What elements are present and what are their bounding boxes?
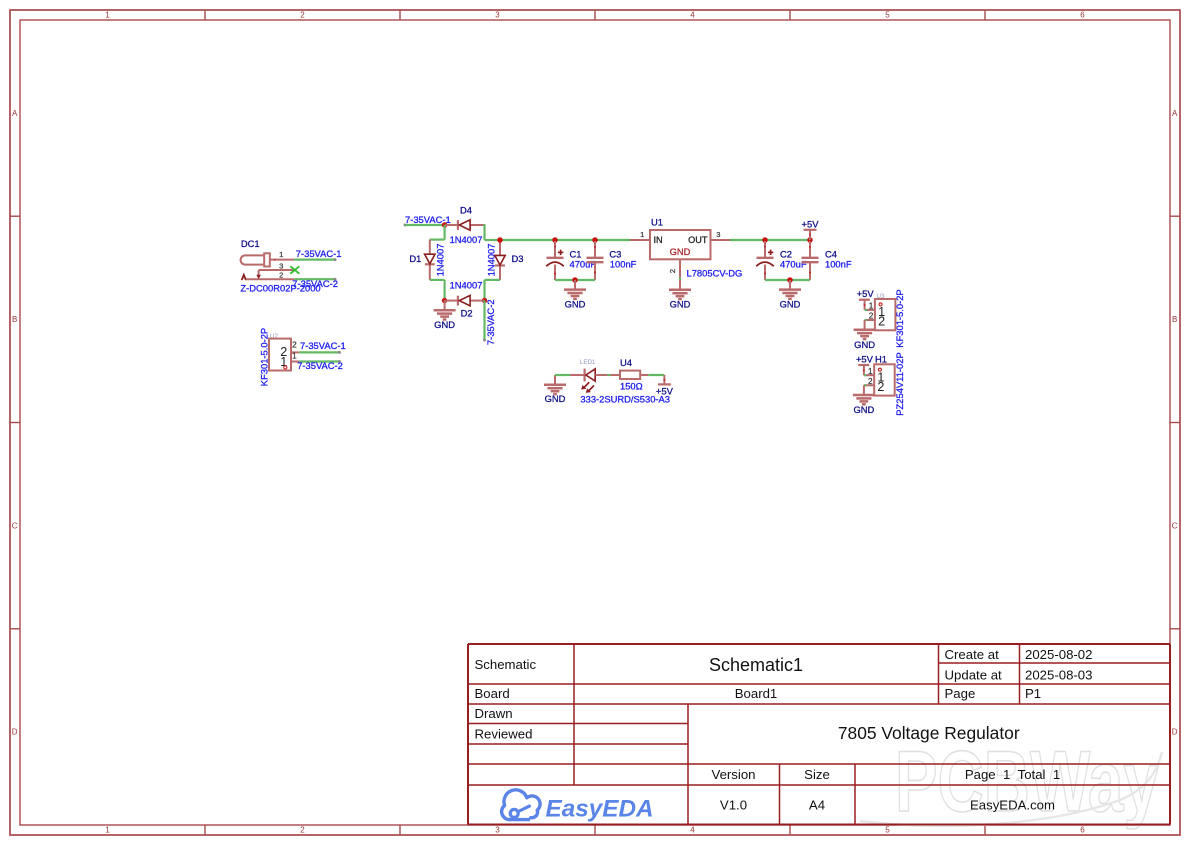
svg-text:Size: Size <box>804 767 830 782</box>
value PZ254V11-02P vertical at H1 <box>894 352 905 415</box>
svg-text:Page: Page <box>945 686 976 701</box>
svg-text:2025-08-02: 2025-08-02 <box>1025 647 1092 662</box>
svg-text:100nF: 100nF <box>610 259 637 270</box>
label C3 <box>609 248 621 259</box>
diode D1 <box>425 240 435 280</box>
svg-text:A: A <box>1172 109 1178 118</box>
svg-text:Create at: Create at <box>945 647 1000 662</box>
svg-text:C: C <box>1172 521 1178 530</box>
svg-text:KF301-5.0-2P: KF301-5.0-2P <box>894 289 905 347</box>
svg-text:D: D <box>1172 728 1178 737</box>
diode D3 <box>495 241 505 280</box>
svg-text:L7805CV-DG: L7805CV-DG <box>687 268 743 279</box>
junction bridge output <box>497 237 503 243</box>
svg-text:2: 2 <box>292 340 297 349</box>
svg-text:GND: GND <box>670 246 691 257</box>
value KF301-5.0-2P vertical at U3 <box>894 289 905 347</box>
EasyEDA logo <box>502 790 654 823</box>
wire net 7-35VAC-2 down from bridge <box>483 301 486 342</box>
pin numbers 2,1 of U2 <box>292 340 297 360</box>
value 100nF of C4 <box>825 259 852 270</box>
net label 7-35VAC-1 at U2 <box>300 340 346 351</box>
label D4 <box>460 205 472 216</box>
svg-text:1: 1 <box>105 11 110 20</box>
svg-text:7-35VAC-2: 7-35VAC-2 <box>485 299 496 345</box>
value 333-2SURD/S530-A3 <box>580 394 670 405</box>
op-amp U1 L7805 regulator <box>630 217 730 291</box>
diode D2 <box>445 295 485 305</box>
svg-text:5: 5 <box>885 11 890 20</box>
svg-text:1N4007: 1N4007 <box>485 244 496 277</box>
ground under C2 C4 <box>779 280 801 309</box>
connector DC1 <box>241 238 295 280</box>
svg-text:GND: GND <box>854 339 875 350</box>
net label 7-35VAC-2 at U2 <box>297 360 343 371</box>
connector U2 KF301-5.0-2P <box>258 328 299 386</box>
wire net 7-35VAC-1 into bridge <box>404 224 445 227</box>
value label Z-DC00R02P-2000 <box>240 283 320 294</box>
svg-text:1N4007: 1N4007 <box>434 244 445 277</box>
capacitor C1 <box>546 241 564 280</box>
value L7805CV-DG <box>687 268 743 279</box>
wire bridge top-right corner <box>485 224 501 240</box>
svg-text:2: 2 <box>300 826 305 835</box>
svg-text:1N4007: 1N4007 <box>450 234 483 245</box>
svg-text:GND: GND <box>545 393 566 404</box>
ground under bridge <box>434 301 456 330</box>
wire net 7-35VAC-2 from DC1 pin 2 <box>294 278 336 281</box>
svg-text:C: C <box>12 521 18 530</box>
svg-text:2: 2 <box>877 380 884 394</box>
label C2 <box>780 248 792 259</box>
svg-text:7-35VAC-1: 7-35VAC-1 <box>300 340 346 351</box>
wire U1 out to +5V <box>730 239 810 241</box>
net label 7-35VAC-1 at bridge <box>405 214 451 225</box>
diode D4 <box>445 220 485 230</box>
svg-text:3: 3 <box>716 230 720 239</box>
pin numbers 1,2 of H1 <box>868 367 873 386</box>
svg-text:Board: Board <box>475 686 510 701</box>
svg-text:4: 4 <box>690 11 695 20</box>
svg-text:+5V: +5V <box>857 288 875 299</box>
pin numbers 1,3,2 of U1 <box>640 230 720 273</box>
value 1N4007 of D1 (vertical) <box>434 244 445 277</box>
junction bridge bottom-right <box>482 298 488 304</box>
svg-text:+5V: +5V <box>802 218 820 229</box>
svg-text:GND: GND <box>434 319 455 330</box>
svg-text:1: 1 <box>105 826 110 835</box>
svg-text:4: 4 <box>690 826 695 835</box>
wire net 7-35VAC-1 from U2 pin 2 <box>299 351 341 354</box>
svg-text:H1: H1 <box>875 353 887 364</box>
svg-text:D4: D4 <box>460 205 472 216</box>
svg-text:5: 5 <box>885 826 890 835</box>
svg-text:7-35VAC-1: 7-35VAC-1 <box>296 248 342 259</box>
svg-text:OUT: OUT <box>688 235 708 245</box>
junction bridge top <box>442 222 448 228</box>
svg-text:Schematic: Schematic <box>475 657 537 672</box>
connector U3 KF301-5.0-2P <box>857 288 896 330</box>
junction input gnd <box>572 277 578 283</box>
svg-text:GND: GND <box>780 298 801 309</box>
svg-text:Reviewed: Reviewed <box>475 727 533 742</box>
svg-text:A: A <box>12 109 18 118</box>
wire C2-C4 bottom bus <box>765 279 810 281</box>
wire U4 to +5V <box>648 374 664 376</box>
svg-text:GND: GND <box>670 299 691 310</box>
label LED1 <box>580 359 596 366</box>
junction +5V node <box>807 237 813 243</box>
junction C1 top <box>552 237 558 243</box>
value 470uF of C2 <box>780 259 807 270</box>
svg-text:2: 2 <box>868 377 873 386</box>
svg-text:3: 3 <box>279 262 283 271</box>
led LED1 <box>570 369 620 393</box>
value 100nF of C3 <box>610 259 637 270</box>
label C1 <box>570 248 582 259</box>
wire C1-C3 bottom bus <box>555 279 595 281</box>
junction C2 top <box>762 237 768 243</box>
svg-text:D1: D1 <box>409 253 421 264</box>
net label 7-35VAC-2 vertical <box>485 299 496 345</box>
wire bridge top-left corner <box>430 225 445 240</box>
svg-text:P1: P1 <box>1025 686 1041 701</box>
wire gnd to LED <box>555 374 570 376</box>
wire net 7-35VAC-2 from U2 pin 1 <box>299 360 341 363</box>
svg-text:B: B <box>1172 315 1177 324</box>
svg-text:Update at: Update at <box>945 668 1003 683</box>
label D3 <box>512 253 524 264</box>
svg-text:1: 1 <box>868 367 873 376</box>
svg-text:A4: A4 <box>809 798 825 813</box>
svg-text:7-35VAC-2: 7-35VAC-2 <box>297 360 343 371</box>
svg-text:Z-DC00R02P-2000: Z-DC00R02P-2000 <box>240 283 320 294</box>
svg-text:470uF: 470uF <box>780 259 807 270</box>
svg-text:EasyEDA: EasyEDA <box>546 796 654 823</box>
svg-text:1: 1 <box>640 230 644 239</box>
resistor U4 <box>620 371 648 379</box>
power +5V at LED branch (down) <box>656 375 674 396</box>
svg-text:150Ω: 150Ω <box>620 380 643 391</box>
label D2 <box>461 307 473 318</box>
svg-text:100nF: 100nF <box>825 259 852 270</box>
svg-text:2025-08-03: 2025-08-03 <box>1025 668 1092 683</box>
svg-text:Board1: Board1 <box>735 686 778 701</box>
svg-text:D: D <box>12 728 18 737</box>
ground at LED branch <box>544 375 566 404</box>
svg-text:+5V: +5V <box>856 353 874 364</box>
svg-text:GND: GND <box>565 298 586 309</box>
value 1N4007 of D4 <box>450 234 483 245</box>
capacitor C4 <box>802 241 819 280</box>
capacitor C3 <box>587 241 604 280</box>
svg-text:IN: IN <box>654 235 663 245</box>
svg-text:LED1: LED1 <box>580 359 596 366</box>
svg-text:2: 2 <box>668 269 677 273</box>
svg-text:U4: U4 <box>620 357 632 368</box>
power +5V at output <box>802 218 820 240</box>
svg-text:1N4007: 1N4007 <box>450 280 483 291</box>
label U4 <box>620 357 632 368</box>
svg-text:7805 Voltage Regulator: 7805 Voltage Regulator <box>838 723 1020 743</box>
ground under C1 C3 <box>564 280 586 309</box>
wire bridge bottom-right corner <box>485 280 501 301</box>
svg-text:Drawn: Drawn <box>475 706 513 721</box>
pin numbers 1,3,2 of DC1 <box>279 250 283 280</box>
svg-text:2: 2 <box>300 11 305 20</box>
svg-text:DC1: DC1 <box>241 238 260 249</box>
value 1N4007 of D2 <box>450 280 483 291</box>
svg-text:PZ254V11-02P: PZ254V11-02P <box>894 352 905 415</box>
value 150 ohm <box>620 380 643 391</box>
pin numbers 1,2 of U3 <box>869 302 874 321</box>
junction output gnd <box>787 277 793 283</box>
ground under U1 <box>669 280 691 309</box>
junction C3 top <box>592 237 598 243</box>
svg-text:EasyEDA.com: EasyEDA.com <box>970 798 1055 813</box>
watermark <box>860 734 1162 830</box>
svg-text:470uF: 470uF <box>570 259 597 270</box>
svg-text:333-2SURD/S530-A3: 333-2SURD/S530-A3 <box>580 394 670 405</box>
svg-text:D3: D3 <box>512 253 524 264</box>
junction bridge bottom-left <box>442 298 448 304</box>
svg-text:1: 1 <box>279 250 283 259</box>
svg-text:Version: Version <box>712 767 756 782</box>
wire main bus bridge to U1 <box>500 239 630 241</box>
label D1 <box>409 253 421 264</box>
svg-text:Page 1 Total 1: Page 1 Total 1 <box>965 767 1060 782</box>
svg-text:Schematic1: Schematic1 <box>709 655 803 675</box>
svg-text:V1.0: V1.0 <box>720 798 747 813</box>
svg-text:D2: D2 <box>461 307 473 318</box>
svg-text:6: 6 <box>1080 11 1085 20</box>
value 470uF of C1 <box>570 259 597 270</box>
value 1N4007 of D3 (vertical) <box>485 244 496 277</box>
title block <box>468 644 1170 825</box>
svg-text:2: 2 <box>869 312 874 321</box>
svg-text:2: 2 <box>279 271 283 280</box>
svg-text:U1: U1 <box>651 217 663 228</box>
svg-text:GND: GND <box>853 404 874 415</box>
ground under H1 <box>853 395 875 415</box>
no-connect X on DC1 pin 3 <box>290 266 299 273</box>
svg-text:PCBWay: PCBWay <box>895 734 1159 830</box>
ground under U3 <box>854 330 876 350</box>
capacitor C2 <box>756 241 774 280</box>
wire bridge bottom-left corner <box>430 280 445 301</box>
svg-text:3: 3 <box>495 11 500 20</box>
net label 7-35VAC-1 at DC1 <box>296 248 342 259</box>
net label 7-35VAC-2 at DC1 <box>292 278 338 289</box>
svg-text:2: 2 <box>878 315 885 329</box>
wire net 7-35VAC-1 from DC1 pin 1 <box>294 258 336 261</box>
svg-text:B: B <box>12 315 17 324</box>
svg-text:1: 1 <box>869 302 874 311</box>
label C4 <box>825 248 837 259</box>
connector H1 PZ254V-11-02P <box>856 353 895 395</box>
svg-text:3: 3 <box>495 826 500 835</box>
svg-text:KF301-5.0-2P: KF301-5.0-2P <box>258 328 269 386</box>
